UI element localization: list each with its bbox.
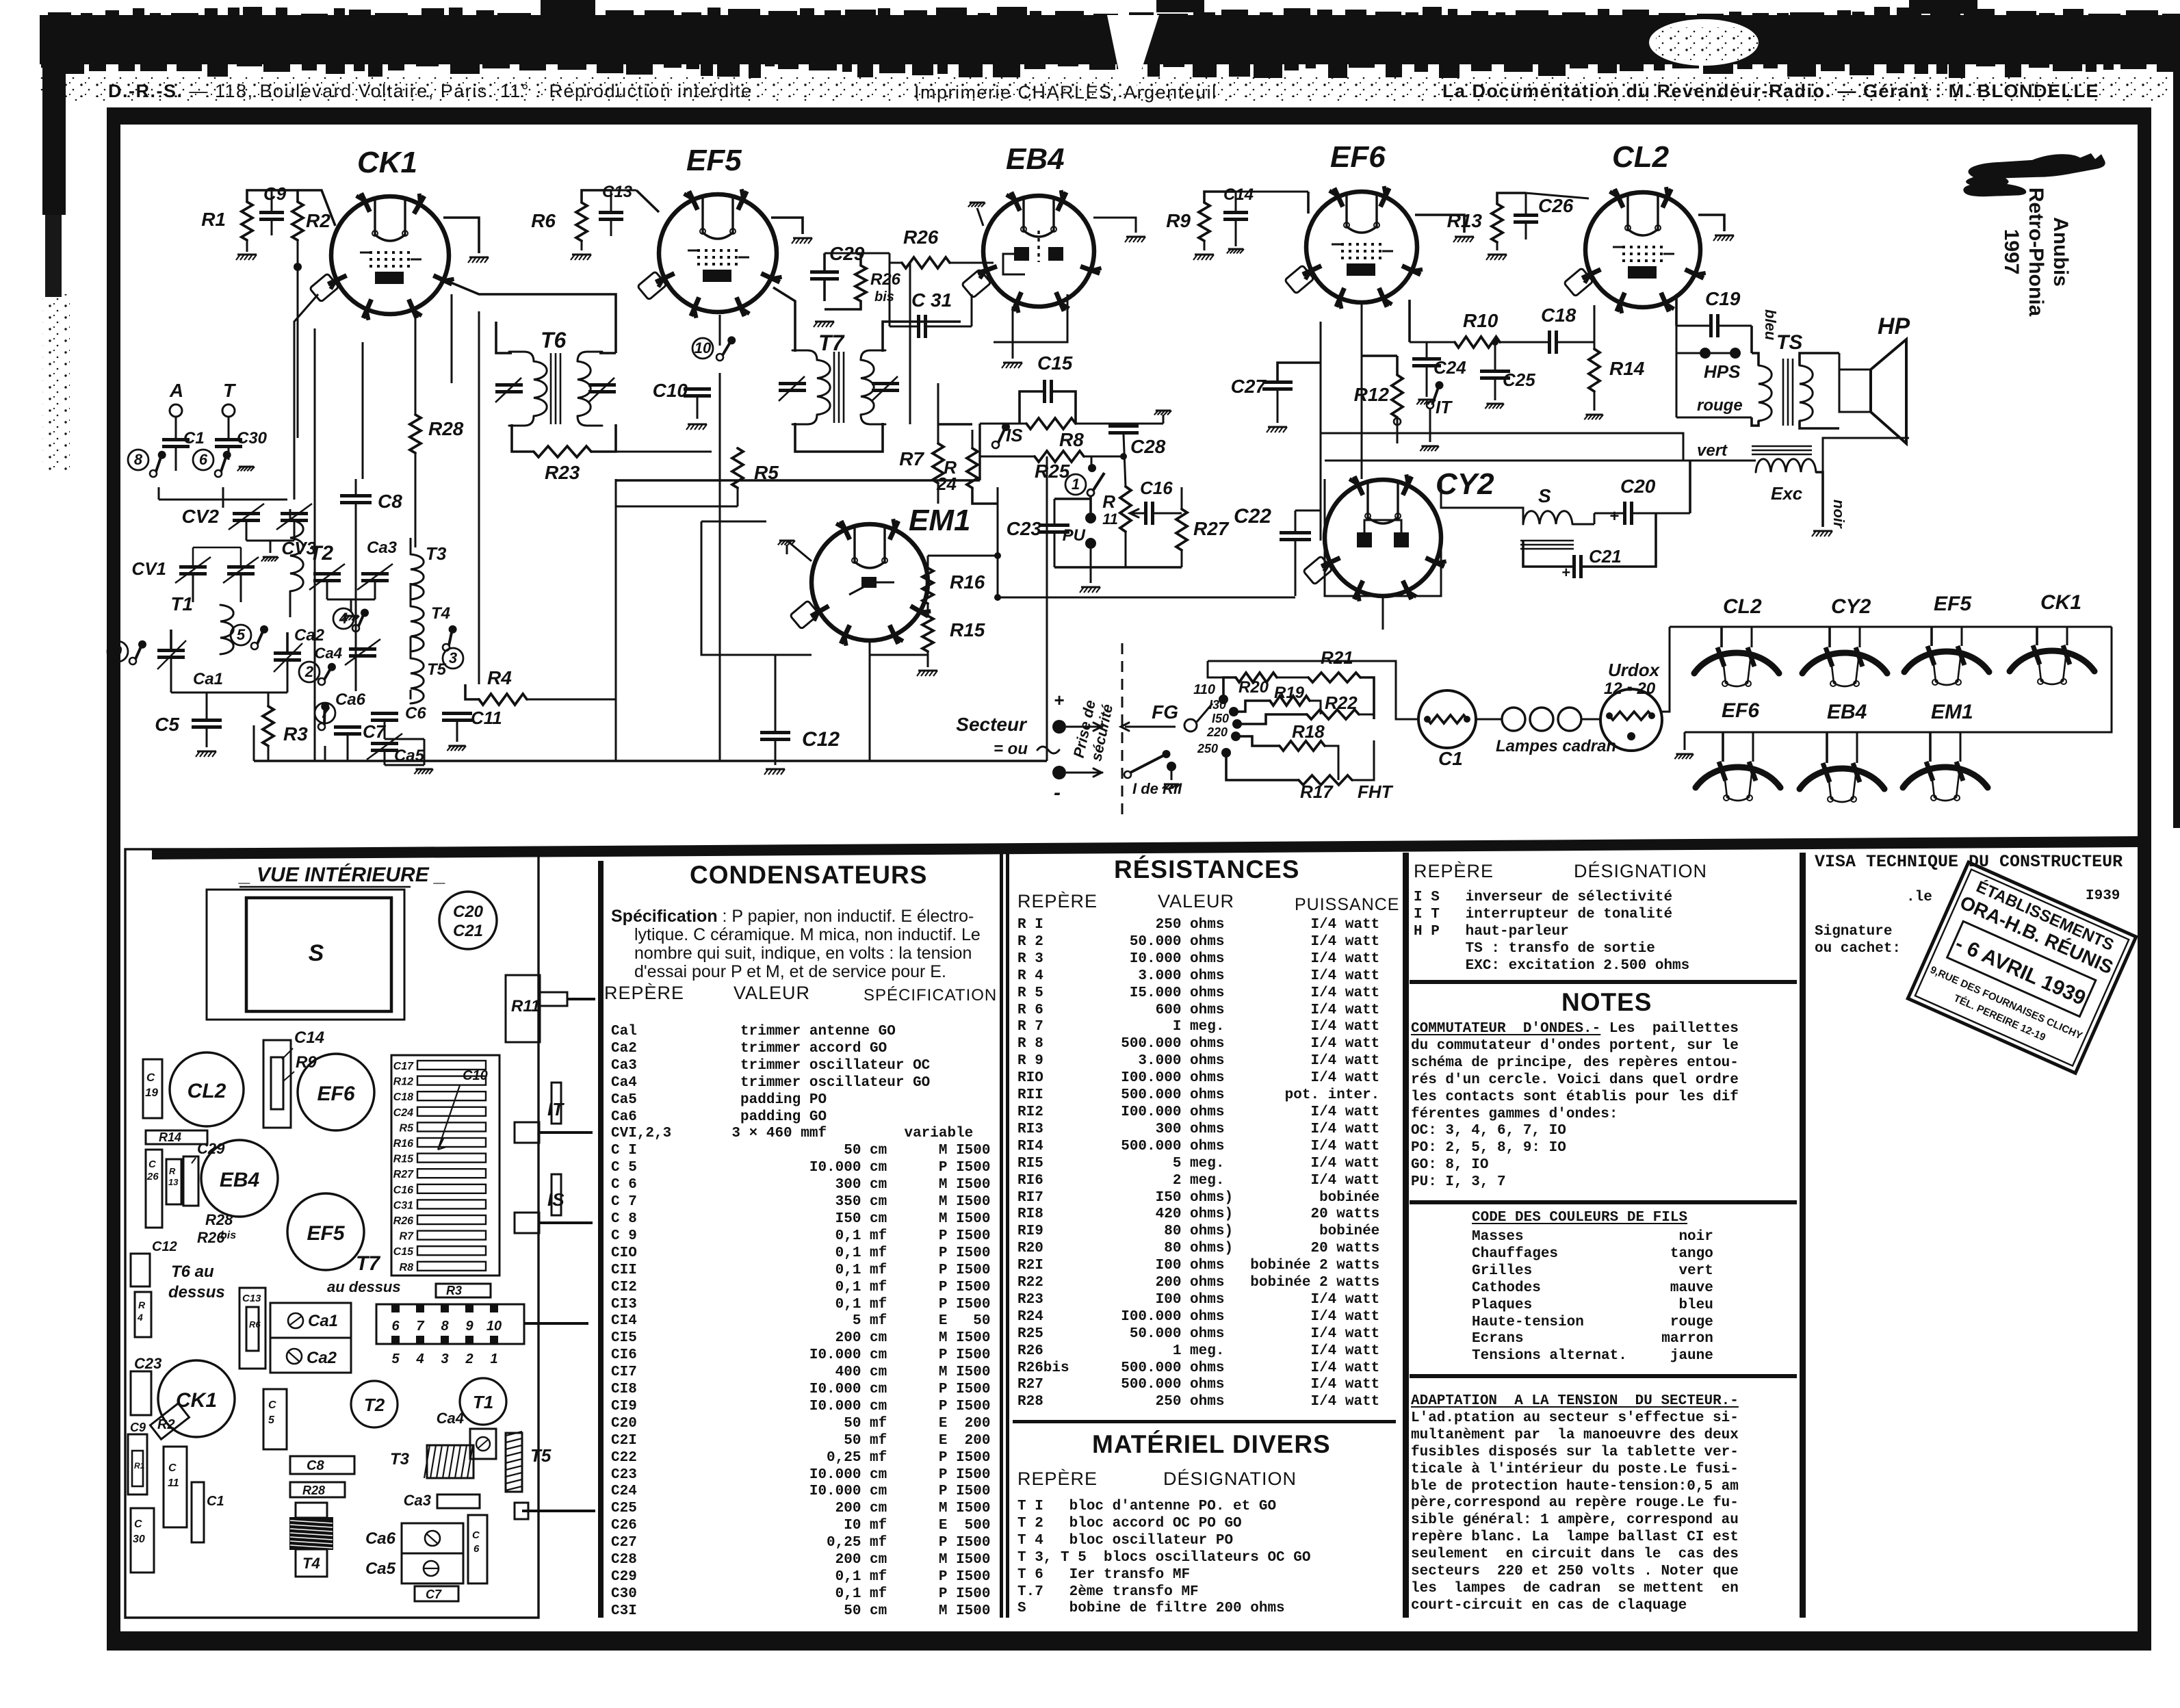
terminal 110 <box>1219 695 1228 704</box>
wire <box>1020 391 1043 424</box>
ground <box>1715 235 1734 237</box>
wire <box>977 208 983 226</box>
resistor R18 <box>1280 741 1325 751</box>
wire <box>175 417 177 438</box>
chassis view (vue interieure) <box>125 849 595 1618</box>
wire <box>1676 352 1700 354</box>
wire <box>937 424 939 443</box>
wire <box>1124 435 1126 487</box>
ground <box>1421 445 1438 448</box>
wire <box>253 725 255 761</box>
capacitor C7 <box>334 725 361 729</box>
terminal PU <box>1085 513 1096 523</box>
variable capacitor CV3 <box>313 572 341 575</box>
wire <box>591 451 712 453</box>
resistor R26bis <box>855 266 866 301</box>
coil Exc <box>1756 459 1816 472</box>
terminal T <box>222 404 235 417</box>
wire <box>719 315 721 346</box>
resistor R13 <box>1492 204 1503 242</box>
wire <box>701 521 812 655</box>
wire <box>1823 438 1909 479</box>
tube EF5 <box>637 189 781 318</box>
wire <box>1826 732 1828 763</box>
ground <box>1813 530 1832 532</box>
tube CL2 <box>1563 187 1705 313</box>
wire <box>206 693 208 719</box>
wire <box>1181 550 1183 567</box>
wire <box>775 741 777 765</box>
wire <box>599 352 616 354</box>
terminal 250 <box>1221 748 1231 758</box>
trimmer Ca1 <box>157 649 185 652</box>
wire <box>927 556 929 568</box>
wire <box>298 190 335 226</box>
terminal mains- <box>1052 766 1066 779</box>
socket EM1 <box>1903 762 1988 801</box>
wire <box>158 487 160 500</box>
speaker HP <box>1839 370 1871 412</box>
wire <box>998 487 1295 597</box>
wire <box>246 522 248 541</box>
tube EM1 <box>790 519 931 645</box>
wire <box>615 506 617 761</box>
socket CK1 <box>2010 645 2094 684</box>
switch contact 7 <box>315 703 335 723</box>
wire <box>247 190 298 202</box>
ground <box>263 556 278 558</box>
wire <box>1204 241 1206 250</box>
ground <box>1195 254 1214 256</box>
wire <box>1441 479 1523 524</box>
wire <box>1839 353 1841 370</box>
wire <box>1121 643 1124 814</box>
capacitor C9 <box>259 211 284 214</box>
switch contact 5 <box>231 625 251 645</box>
resistor R24 <box>967 448 978 488</box>
capacitor C24 <box>1412 357 1441 361</box>
resistor R10 <box>1455 337 1500 348</box>
terminal mains+ <box>1052 720 1066 734</box>
wire <box>1295 510 1297 531</box>
wire <box>1594 342 1596 349</box>
resistor R6 <box>576 203 587 241</box>
tube CY2 <box>1303 474 1446 601</box>
switch IT <box>1427 402 1433 409</box>
wire <box>1277 391 1279 423</box>
capacitor C16 <box>1144 502 1147 525</box>
resistor R4 <box>479 694 527 705</box>
wire <box>1324 461 1325 479</box>
switch IS <box>992 441 999 448</box>
capacitor C8 <box>340 494 372 497</box>
resistor R19 <box>1270 696 1310 706</box>
wire <box>786 545 788 554</box>
wire <box>1800 353 1839 365</box>
wire <box>314 328 316 712</box>
wire <box>1236 736 1280 746</box>
wire <box>1722 732 1724 762</box>
wire <box>1676 325 1709 327</box>
wire <box>1594 305 1596 342</box>
wire <box>1325 460 1756 462</box>
wire <box>294 383 296 500</box>
wire <box>478 311 480 684</box>
capacitor C15 <box>1043 380 1046 403</box>
wire <box>1496 242 1498 250</box>
tube EF6 <box>1284 186 1423 309</box>
resistor R11 <box>1120 487 1131 532</box>
coil T3 <box>411 554 424 599</box>
capacitor C22 <box>1280 531 1311 534</box>
switch contact 8 <box>128 450 148 470</box>
wire <box>1572 523 1594 526</box>
coil T1 <box>220 605 233 654</box>
ground <box>688 424 707 426</box>
transformer T6 <box>495 352 616 426</box>
terminal 220 <box>1231 732 1241 741</box>
wire <box>1046 456 1048 761</box>
wire <box>1066 726 1103 728</box>
capacitor C27 <box>1262 380 1293 384</box>
capacitor C21 <box>1572 555 1576 578</box>
wire <box>890 326 917 328</box>
capacitor C14 <box>1223 211 1248 214</box>
tube CK1 <box>309 193 454 320</box>
ground <box>766 768 785 771</box>
ground <box>1081 586 1100 588</box>
variable capacitor CV1 <box>179 565 207 569</box>
resistor R3 <box>263 706 274 746</box>
wire <box>1163 415 1165 424</box>
wire <box>424 739 426 765</box>
ballast lamp C1 <box>1418 690 1476 748</box>
ground <box>572 254 591 256</box>
wire <box>1816 472 1823 527</box>
wire <box>1930 627 1933 646</box>
wire <box>1321 433 1683 461</box>
wire <box>870 655 928 667</box>
wire <box>1066 772 1103 774</box>
wire <box>355 547 357 691</box>
coil T5 <box>411 658 424 703</box>
switch I de R11 <box>1124 771 1131 778</box>
wire <box>410 538 412 554</box>
resistor R7 <box>933 443 944 483</box>
capacitor C1 <box>162 438 190 441</box>
capacitor C5 <box>192 719 222 722</box>
coil T2 <box>290 520 303 591</box>
ground <box>343 615 359 617</box>
switch contact 1 <box>1065 474 1086 495</box>
resistor R9 <box>1199 203 1210 241</box>
wire <box>909 263 911 424</box>
wire <box>192 575 194 602</box>
resistor R16 <box>922 568 933 604</box>
ground <box>1488 254 1507 256</box>
capacitor C13 <box>599 211 623 214</box>
wire <box>1226 753 1299 780</box>
lamp Urdox <box>1600 689 1662 751</box>
capacitor C25 <box>1480 370 1510 373</box>
ground <box>793 237 812 240</box>
wire <box>1685 627 2112 732</box>
wire <box>1084 456 1124 458</box>
wire <box>443 218 479 253</box>
wire <box>268 693 270 706</box>
resistor R14 <box>1589 349 1600 391</box>
socket EB4 <box>1800 763 1884 802</box>
wire <box>1828 627 1831 647</box>
capacitor C6 <box>371 712 398 715</box>
ground <box>1228 248 1243 250</box>
wire <box>527 699 616 701</box>
ground <box>1003 362 1022 364</box>
ground <box>918 670 937 672</box>
wire <box>1429 409 1431 442</box>
wire <box>362 342 364 479</box>
switch contact 3 <box>443 648 463 669</box>
trimmer Ca4 <box>349 647 376 651</box>
capacitor C10 <box>684 387 711 391</box>
ground <box>1585 414 1602 416</box>
trimmer Ca2 <box>274 651 301 655</box>
dial lamp <box>1530 708 1553 731</box>
socket CL2 <box>1694 647 1779 686</box>
resistor R27 <box>1176 509 1187 550</box>
ground <box>815 321 834 323</box>
transformer TS <box>1759 365 1772 421</box>
wire <box>1234 701 1270 712</box>
ground <box>1486 403 1503 405</box>
ground <box>1164 784 1179 786</box>
wire <box>1237 714 1307 724</box>
wire <box>1320 322 1322 541</box>
wire <box>1476 719 1503 721</box>
wire <box>347 736 349 761</box>
resistor R1 <box>242 202 252 240</box>
ground <box>1156 410 1171 412</box>
resistor R5 <box>732 448 743 488</box>
socket EF6 <box>1696 762 1780 801</box>
wire <box>1197 703 1212 722</box>
ground <box>970 202 985 204</box>
resistor R15 <box>922 616 933 651</box>
resistor R21 <box>1308 673 1360 682</box>
wire <box>1325 479 1441 596</box>
ground <box>469 257 489 259</box>
resistor R25 <box>1035 451 1084 462</box>
ground <box>1418 399 1435 401</box>
wire <box>456 722 458 742</box>
wire <box>1661 627 1670 712</box>
wire <box>1720 627 1723 647</box>
ground <box>1126 236 1145 238</box>
ground <box>415 768 432 771</box>
socket EF5 <box>1904 646 1989 685</box>
resistor R26 <box>902 257 950 268</box>
credit Anubis Retro-Phonia 1997 <box>2000 187 2072 317</box>
wire <box>890 262 902 264</box>
ground <box>1268 426 1287 428</box>
wire <box>1698 215 1724 231</box>
wire <box>869 640 871 761</box>
wire <box>170 630 172 649</box>
wire <box>1012 307 1014 359</box>
wire <box>2036 627 2038 645</box>
wire <box>289 509 291 520</box>
capacitor C20 <box>1623 502 1626 525</box>
wire <box>1089 496 1092 513</box>
logo Anubis silhouette <box>1963 153 2105 196</box>
capacitor C28 <box>1108 424 1139 428</box>
wire <box>415 383 417 415</box>
wire <box>1523 541 1572 567</box>
wire <box>1130 513 1144 515</box>
capacitor C18 <box>1548 331 1551 354</box>
wire <box>823 253 826 270</box>
wire <box>1361 302 1363 479</box>
coil S <box>1523 511 1572 524</box>
wire <box>994 294 1067 342</box>
dial lamp <box>1502 708 1525 731</box>
dial lamp <box>1558 708 1581 731</box>
ground <box>448 745 465 747</box>
ground <box>239 466 254 468</box>
terminal 130 <box>1229 707 1238 716</box>
wire <box>795 423 883 452</box>
tube EB4 <box>961 190 1101 313</box>
switch contact 10 <box>692 338 713 359</box>
wire <box>1382 596 1384 630</box>
wire <box>980 423 1026 425</box>
wire <box>1581 719 1600 721</box>
wire <box>928 555 998 557</box>
switch contact 6 <box>193 450 213 470</box>
ground <box>1455 236 1474 238</box>
capacitor C31 <box>917 315 920 338</box>
resistor R2 <box>292 202 303 240</box>
wire <box>1223 677 1236 699</box>
socket CY2 <box>1802 647 1887 686</box>
wire <box>1204 192 1236 203</box>
wire <box>1415 215 1464 233</box>
capacitor C23 <box>1039 523 1069 527</box>
transformer T7 <box>779 350 899 424</box>
wire <box>326 582 328 599</box>
wire <box>384 722 386 739</box>
ground <box>779 540 794 542</box>
trimmer Ca3 <box>361 572 389 575</box>
resistor R12 <box>1392 375 1403 417</box>
wire <box>512 424 534 452</box>
resistor R17 <box>1299 775 1352 785</box>
ground <box>237 254 257 256</box>
capacitor C30 <box>215 438 242 441</box>
wire <box>1752 353 1759 365</box>
capacitor C29 <box>810 270 839 274</box>
wire <box>697 398 699 419</box>
capacitor C12 <box>760 731 790 734</box>
wire <box>1670 626 2112 628</box>
resistor R8 <box>1026 418 1076 429</box>
terminal A <box>170 404 182 417</box>
wire <box>581 241 583 250</box>
resistor R22 <box>1307 710 1359 719</box>
variable capacitor CV2 <box>233 512 260 515</box>
wire <box>415 311 417 383</box>
resistor R23 <box>534 446 591 457</box>
ground <box>197 751 216 753</box>
capacitor C26 <box>1514 213 1538 217</box>
wire <box>582 190 611 203</box>
trimmer Ca5 <box>371 742 398 745</box>
capacitor C19 <box>1709 314 1713 337</box>
wire <box>1410 341 1455 344</box>
resistor R28 <box>410 415 421 453</box>
wire <box>294 294 318 383</box>
resistor R20 <box>1236 673 1277 682</box>
wire <box>1684 732 1686 750</box>
wire <box>1093 218 1136 233</box>
wire <box>446 281 616 353</box>
terminal HPS <box>1700 348 1711 359</box>
wire <box>355 479 357 494</box>
switch contact 4 <box>333 608 354 629</box>
wire <box>1558 341 1594 344</box>
wire <box>773 287 795 352</box>
visa stamp <box>1908 862 2136 1073</box>
coil T4 <box>411 606 424 651</box>
wire <box>771 218 803 234</box>
wire <box>254 760 1047 762</box>
wire <box>980 456 1035 458</box>
ground <box>1676 753 1693 755</box>
wire <box>775 655 777 712</box>
switch contact 9 <box>107 641 128 662</box>
wire <box>1497 193 1526 204</box>
wire <box>616 479 980 481</box>
wire <box>1929 732 1932 762</box>
wire <box>1208 661 1419 719</box>
capacitor C11 <box>442 712 472 715</box>
wire <box>737 488 739 506</box>
terminal 150 <box>1232 719 1242 729</box>
switch contact 2 <box>299 662 320 682</box>
label prise de securite <box>1070 699 1117 763</box>
